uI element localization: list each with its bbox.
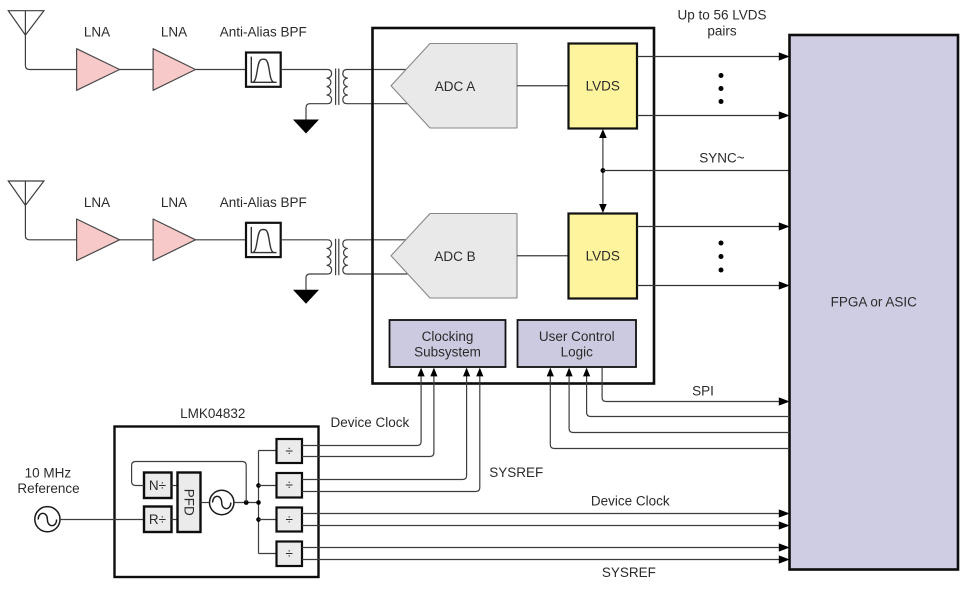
block PFD (178, 473, 201, 533)
node SYNC junction (601, 168, 606, 173)
wire bus to divider 2 (259, 485, 277, 487)
wire BPF to transformer T2 (281, 239, 328, 241)
svg-text:ADC A: ADC A (435, 79, 476, 94)
wire SYNC~ to FPGA (603, 170, 790, 172)
svg-text:LVDS: LVDS (586, 79, 620, 94)
op-amp ADC A (391, 44, 517, 129)
label User Control Logic (539, 329, 615, 360)
node bus junction 2 (256, 500, 261, 505)
svg-text:÷: ÷ (286, 546, 293, 561)
wire bus to divider 4 (259, 553, 277, 555)
svg-text:LNA: LNA (84, 25, 110, 40)
wire LNA2 to BPF (196, 69, 247, 71)
transformer T1 (327, 69, 348, 105)
svg-text:÷: ÷ (286, 512, 293, 527)
svg-text:PFD: PFD (182, 489, 197, 516)
block Clocking Subsystem (390, 320, 506, 367)
ADC dual-chip container box (373, 28, 655, 384)
wire ADC A to LVDS A (517, 85, 569, 87)
ellipsis dots (row B) (719, 241, 724, 273)
divider DIV4 (277, 542, 303, 567)
svg-text:LMK04832: LMK04832 (180, 406, 245, 421)
block LVDS B (569, 214, 638, 299)
divider R (144, 507, 172, 533)
block LMK04832 (115, 427, 319, 578)
wire VCO output to divider bus (234, 502, 259, 504)
divider DIV1 (277, 439, 303, 463)
filter Anti-Alias BPF (row A) (246, 53, 281, 87)
ground (row B) (293, 290, 319, 304)
svg-text:SPI: SPI (692, 384, 714, 399)
transformer T2 (327, 239, 348, 275)
svg-text:LNA: LNA (161, 195, 187, 210)
svg-text:Subsystem: Subsystem (414, 344, 481, 359)
ground (row A) (293, 120, 319, 134)
op-amp ADC B (391, 214, 517, 299)
wire T2 secondary top to ADC B (347, 239, 409, 241)
label Clocking Subsystem (414, 329, 481, 360)
wire divider input bus (258, 451, 260, 554)
wire DIV1 device clock a to Clocking Subsystem (302, 368, 425, 446)
wire LVDS A output 2 to FPGA (637, 111, 790, 119)
svg-text:LNA: LNA (161, 25, 187, 40)
wire DIV4 sysref a to FPGA (302, 543, 790, 551)
wire DIV1 device clock b to Clocking Subsystem (302, 368, 438, 457)
svg-text:Clocking: Clocking (422, 329, 474, 344)
wire N divider to PFD (172, 485, 178, 487)
wire FPGA to User Control Logic 2 (566, 368, 790, 433)
svg-text:SYNC~: SYNC~ (699, 151, 745, 166)
wire R divider to PFD (172, 519, 178, 521)
amplifier LNA2 (153, 49, 195, 91)
divider N (144, 473, 172, 499)
wire DIV3 device clock a to FPGA (302, 509, 790, 517)
svg-text:LNA: LNA (84, 195, 110, 210)
antenna ANT2 (8, 181, 76, 240)
filter Anti-Alias BPF (row B) (246, 223, 281, 257)
wire LNA4 to BPF (196, 239, 247, 241)
wire T1 primary to ground (306, 104, 327, 120)
wire LVDS B output 1 to FPGA (637, 222, 790, 230)
node bus junction 3 (256, 517, 261, 522)
source 10 MHz reference oscillator (35, 507, 60, 532)
label Up to 56 LVDS pairs (677, 8, 766, 39)
svg-text:LVDS: LVDS (586, 249, 620, 264)
svg-text:N÷: N÷ (149, 478, 166, 493)
svg-text:Anti-Alias BPF: Anti-Alias BPF (220, 195, 307, 210)
wire T2 primary to ground (306, 274, 327, 290)
antenna ANT1 (8, 11, 76, 70)
block LVDS A (569, 44, 638, 129)
wire ADC B to LVDS B (517, 255, 569, 257)
wire T1 secondary bottom to ADC A (347, 103, 409, 105)
amplifier LNA3 (77, 219, 120, 261)
svg-text:Reference: Reference (17, 481, 79, 496)
label 10 MHz Reference (17, 465, 79, 495)
wire DIV4 sysref b to FPGA (302, 555, 790, 563)
svg-text:Device Clock: Device Clock (591, 493, 670, 508)
svg-text:Anti-Alias BPF: Anti-Alias BPF (220, 25, 307, 40)
block User Control Logic (518, 320, 637, 367)
wire bus to divider 1 (259, 450, 277, 452)
divider DIV3 (277, 508, 303, 532)
wire BPF to transformer T1 (281, 69, 328, 71)
wire PFD to VCO (201, 502, 210, 504)
wire LVDS B output 2 to FPGA (637, 281, 790, 289)
svg-text:ADC B: ADC B (434, 249, 475, 264)
wire FPGA to User Control Logic 1 (583, 368, 790, 417)
wire T2 secondary bottom to ADC B (347, 273, 409, 275)
wire SYNC vertical double arrow between LVDS A and LVDS B (599, 129, 607, 213)
wire feedback loop to N divider (132, 462, 247, 503)
wire SPI from User Control Logic to FPGA (602, 367, 790, 405)
node bus junction 1 (256, 483, 261, 488)
svg-text:Up to 56 LVDS: Up to 56 LVDS (677, 8, 766, 23)
wire bus to divider 3 (259, 519, 277, 521)
svg-text:FPGA or ASIC: FPGA or ASIC (831, 295, 918, 310)
wire LNA1 to LNA2 (120, 69, 154, 71)
wire T1 secondary top to ADC A (347, 69, 409, 71)
svg-text:SYSREF: SYSREF (602, 565, 656, 580)
ellipsis dots (row A) (719, 73, 724, 104)
wire DIV3 device clock b to FPGA (302, 521, 790, 529)
svg-text:10 MHz: 10 MHz (25, 465, 72, 480)
block FPGA or ASIC (790, 35, 959, 570)
wire DIV2 sysref a to Clocking Subsystem (302, 368, 470, 480)
svg-text:÷: ÷ (286, 478, 293, 493)
svg-text:Device Clock: Device Clock (331, 415, 410, 430)
svg-text:R÷: R÷ (149, 512, 166, 527)
wire DIV2 sysref b to Clocking Subsystem (302, 368, 483, 492)
svg-text:pairs: pairs (707, 24, 737, 39)
node VCO output junction (244, 500, 249, 505)
svg-text:÷: ÷ (286, 444, 293, 459)
svg-text:Logic: Logic (561, 344, 594, 359)
oscillator VCO (210, 490, 234, 514)
divider DIV2 (277, 473, 303, 498)
svg-text:SYSREF: SYSREF (489, 465, 543, 480)
wire LVDS A output 1 to FPGA (637, 52, 790, 60)
amplifier LNA4 (153, 219, 195, 261)
svg-text:User Control: User Control (539, 329, 615, 344)
amplifier LNA1 (77, 49, 120, 91)
wire FPGA to User Control Logic 3 (547, 368, 790, 449)
wire LNA3 to LNA4 (120, 239, 154, 241)
wire 10 MHz reference to R divider (60, 519, 144, 521)
